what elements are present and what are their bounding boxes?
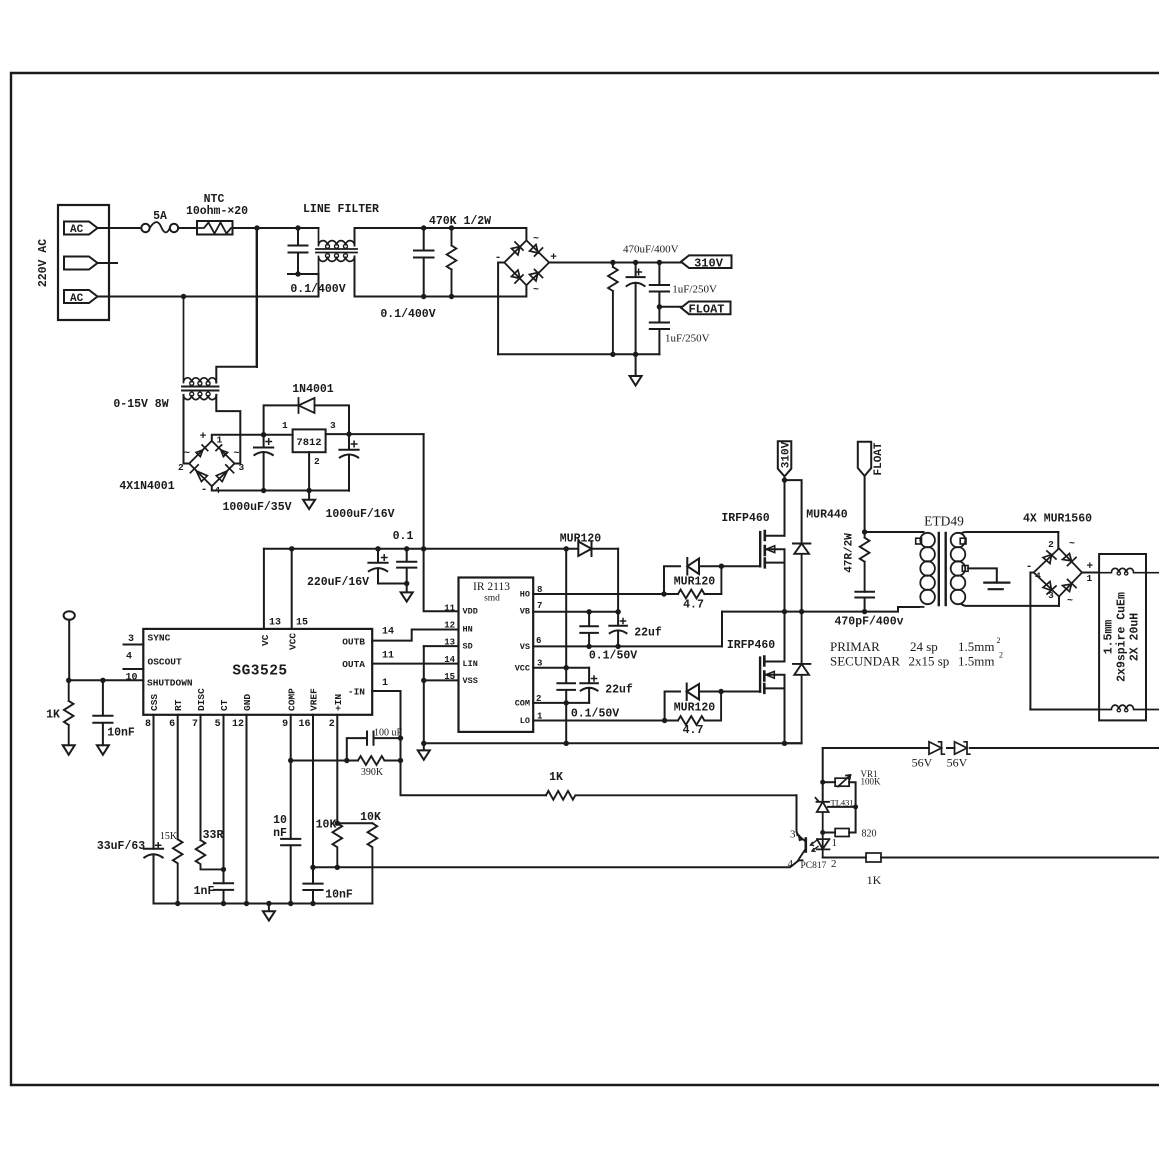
svg-text:1: 1 xyxy=(537,712,543,722)
svg-text:PC817: PC817 xyxy=(801,861,827,871)
zener diode 56V first xyxy=(929,742,944,754)
svg-text:390K: 390K xyxy=(361,767,384,778)
capacitor 1000uF/35V xyxy=(254,435,273,491)
resistor 1K shutdown xyxy=(64,680,74,745)
T2 primary polarity square xyxy=(916,538,922,544)
wire gate upper xyxy=(721,565,760,567)
pin 6 RT xyxy=(177,715,179,840)
svg-text:310V: 310V xyxy=(694,256,724,270)
svg-text:SYNC: SYNC xyxy=(148,633,171,644)
wire top to bridge xyxy=(355,228,527,240)
svg-text:SG3525: SG3525 xyxy=(232,664,287,680)
svg-text:VCC: VCC xyxy=(288,633,299,650)
MOSFET Q1 IRFP460 upper xyxy=(759,532,761,566)
svg-text:22uf: 22uf xyxy=(605,684,633,697)
bootstrap diode MUR120 xyxy=(564,546,569,551)
svg-text:VC: VC xyxy=(260,634,271,646)
svg-text:1.5mm: 1.5mm xyxy=(958,654,994,669)
IC U3 IR2113 xyxy=(459,578,534,732)
svg-text:3: 3 xyxy=(239,462,245,473)
B2 wire top corner xyxy=(1057,532,1059,548)
svg-text:56V: 56V xyxy=(947,756,968,770)
svg-text:10K: 10K xyxy=(360,811,381,824)
svg-text:MUR120: MUR120 xyxy=(674,702,716,715)
svg-text:0.1: 0.1 xyxy=(393,530,414,543)
svg-text:SHUTDOWN: SHUTDOWN xyxy=(147,678,193,689)
wire 310V to Q1 drain xyxy=(784,476,786,535)
node at NTC output xyxy=(254,225,259,230)
svg-text:13: 13 xyxy=(269,618,281,629)
7812 pin2 to rail xyxy=(308,452,310,490)
svg-text:7: 7 xyxy=(537,601,542,611)
B1 diode top-left xyxy=(512,242,524,255)
T2 center tap xyxy=(962,566,968,572)
svg-text:~: ~ xyxy=(533,234,539,245)
wire 310V to MUR440 xyxy=(785,480,802,543)
svg-text:4: 4 xyxy=(788,858,794,870)
capacitor 470uF/400V xyxy=(627,263,645,355)
feedback sense line with zeners xyxy=(823,747,1159,749)
VREF to optocoupler emitter wire xyxy=(313,861,798,867)
pin 6 VS xyxy=(533,645,722,647)
capacitor 0.1/50V vcc xyxy=(557,668,575,703)
svg-text:2: 2 xyxy=(314,456,320,467)
svg-text:VS: VS xyxy=(520,642,530,652)
pin 10 SHUTDOWN xyxy=(69,679,144,681)
svg-text:1N4001: 1N4001 xyxy=(292,383,334,396)
svg-text:-: - xyxy=(201,484,208,496)
svg-text:RT: RT xyxy=(173,699,184,711)
svg-text:OUTB: OUTB xyxy=(342,637,365,648)
pin 1 -IN xyxy=(372,691,400,738)
aux transformer secondary xyxy=(184,395,217,400)
resistor 47R/2W snubber xyxy=(860,532,870,592)
gate resistor 4.7 upper xyxy=(664,566,721,598)
capacitor 100uF feedback xyxy=(347,732,401,761)
svg-text:47R/2W: 47R/2W xyxy=(844,533,856,573)
pin 7 DISC xyxy=(200,715,202,840)
svg-text:2: 2 xyxy=(536,694,541,704)
svg-text:1K: 1K xyxy=(46,709,60,722)
ground xyxy=(401,584,413,602)
T2 secondary bottom lead xyxy=(962,605,1059,606)
bleeder resistor xyxy=(608,263,618,355)
svg-text:2: 2 xyxy=(329,719,335,730)
output bridge B2 MUR1560 xyxy=(1034,548,1082,596)
svg-text:22uf: 22uf xyxy=(634,627,662,640)
svg-text:9: 9 xyxy=(282,719,288,730)
capacitor 1uF/250V upper xyxy=(650,263,669,307)
capacitor 22uf vcc xyxy=(580,668,598,703)
B1 diode bottom-left xyxy=(512,270,524,283)
svg-text:~: ~ xyxy=(184,449,190,460)
ground xyxy=(97,745,109,755)
svg-text:1000uF/16V: 1000uF/16V xyxy=(325,508,394,521)
B1 diode top-right xyxy=(530,245,543,257)
pin 1 LO xyxy=(533,720,664,722)
bottom rail corner xyxy=(785,742,802,744)
inductor L2 top winding xyxy=(1099,568,1159,572)
aux transformer T1 primary xyxy=(184,297,217,383)
svg-text:~: ~ xyxy=(533,285,539,296)
svg-text:2: 2 xyxy=(999,651,1003,660)
MOSFET Q2 IRFP460 lower xyxy=(759,658,761,692)
resistor 10K first xyxy=(332,823,342,867)
flag FLOAT vertical xyxy=(858,442,871,476)
MUR120 anode vertical to VCC xyxy=(565,549,567,668)
aux diode top-left xyxy=(196,445,208,457)
resistor 820 xyxy=(820,830,825,835)
wire to FLOAT flag xyxy=(659,306,681,308)
T2 secondary top lead xyxy=(962,531,1058,534)
svg-text:COM: COM xyxy=(515,699,530,709)
ground xyxy=(303,491,315,510)
svg-text:470K 1/2W: 470K 1/2W xyxy=(429,215,491,228)
capacitor 0.1/400V second xyxy=(414,228,434,297)
earth ground tap xyxy=(984,583,1009,590)
-IN node down to 1K wire xyxy=(401,738,547,795)
aux bridge 4X1N4001 xyxy=(189,441,234,486)
svg-text:2: 2 xyxy=(178,462,184,473)
svg-text:15K: 15K xyxy=(160,831,178,842)
B2 plus wire xyxy=(1082,572,1099,574)
resistor 10K second xyxy=(368,823,378,903)
svg-text:1: 1 xyxy=(382,678,388,689)
svg-text:7812: 7812 xyxy=(296,437,321,449)
flag FLOAT xyxy=(681,302,731,315)
svg-text:10K: 10K xyxy=(316,819,337,832)
svg-text:nF: nF xyxy=(273,827,287,840)
capacitor 1000uF/16V xyxy=(339,434,358,491)
ground xyxy=(630,354,642,385)
svg-text:1K: 1K xyxy=(549,771,563,784)
pin 3 SYNC xyxy=(124,644,144,646)
regulator U2 7812 xyxy=(293,429,326,452)
svg-text:1.5mm: 1.5mm xyxy=(1103,620,1116,655)
svg-text:TL431: TL431 xyxy=(831,798,854,808)
node FLOAT tap xyxy=(657,304,662,309)
svg-text:VB: VB xyxy=(520,607,530,617)
capacitor 0.1/400V first xyxy=(289,228,308,274)
line filter bottom winding xyxy=(319,257,355,297)
wire bridge plus to 310V flag xyxy=(549,262,681,264)
svg-text:+: + xyxy=(1087,561,1094,573)
diode MUR440 upper xyxy=(793,544,810,612)
svg-text:smd: smd xyxy=(484,594,500,604)
capacitor 33uF/63 xyxy=(144,849,163,904)
capacitor 10nF comp xyxy=(281,839,300,904)
svg-text:0-15V 8W: 0-15V 8W xyxy=(113,398,168,411)
wire rail right end up to cap xyxy=(309,488,349,491)
svg-text:12: 12 xyxy=(232,719,244,730)
svg-text:3: 3 xyxy=(128,634,134,645)
wire AC top to fuse xyxy=(98,227,142,229)
aux transformer core xyxy=(182,387,219,391)
svg-text:IR 2113: IR 2113 xyxy=(473,581,510,593)
B2 minus wire down xyxy=(1030,573,1033,710)
svg-text:CSS: CSS xyxy=(149,694,160,711)
T2 primary winding xyxy=(865,531,924,533)
inductor L2 bottom winding xyxy=(1099,705,1159,709)
MUR120 cathode down to VB xyxy=(617,549,619,612)
svg-text:AC: AC xyxy=(70,293,84,305)
diode MUR440 lower xyxy=(793,612,810,744)
aux diode bottom-right xyxy=(216,465,233,482)
svg-text:11: 11 xyxy=(382,651,394,662)
svg-text:MUR120: MUR120 xyxy=(560,533,602,546)
resistor 1K to opto xyxy=(546,791,797,800)
connector pin middle xyxy=(64,257,98,270)
negative rail xyxy=(498,353,659,355)
wire aux bridge minus to rail xyxy=(212,486,349,490)
wire bottom to bridge xyxy=(355,285,527,296)
pin 5 CT xyxy=(223,715,225,884)
SD-VSS vertical to ground rail xyxy=(423,646,425,743)
svg-text:2: 2 xyxy=(1048,539,1054,550)
svg-text:8: 8 xyxy=(537,585,542,595)
svg-text:3: 3 xyxy=(330,420,336,431)
capacitor 0.1/50V bootstrap xyxy=(586,609,591,614)
wire NTC to filter xyxy=(233,227,319,229)
svg-text:1000uF/35V: 1000uF/35V xyxy=(222,501,291,514)
svg-text:14: 14 xyxy=(444,655,455,665)
ground rail xyxy=(154,903,373,905)
pin 9 COMP xyxy=(290,715,292,839)
svg-text:1: 1 xyxy=(832,837,838,849)
svg-text:1uF/250V: 1uF/250V xyxy=(672,284,717,296)
resistor 390K feedback xyxy=(288,758,293,763)
svg-text:4.7: 4.7 xyxy=(683,724,704,737)
svg-text:2: 2 xyxy=(831,858,837,870)
ground symbol on rail xyxy=(266,901,271,906)
pin 13 VC xyxy=(263,549,265,629)
svg-text:LIN: LIN xyxy=(463,659,478,669)
svg-text:33uF/63: 33uF/63 xyxy=(97,840,145,853)
svg-text:SD: SD xyxy=(463,642,473,652)
svg-text:MUR120: MUR120 xyxy=(674,576,716,589)
capacitor 10nF vref xyxy=(303,884,322,904)
pin 16 VREF xyxy=(312,715,314,884)
svg-text:470pF/400v: 470pF/400v xyxy=(834,616,903,629)
line filter core xyxy=(316,249,357,253)
wire fuse to NTC xyxy=(178,227,197,229)
svg-text:3: 3 xyxy=(537,659,542,669)
output minus rail xyxy=(1030,709,1099,711)
B2 diode bottom-right xyxy=(1063,580,1077,592)
svg-text:FLOAT: FLOAT xyxy=(873,442,885,475)
capacitor 1uF/250V lower xyxy=(650,307,669,355)
wire gate lower xyxy=(721,691,760,693)
COM ground rail xyxy=(424,742,801,744)
svg-text:12: 12 xyxy=(444,621,455,631)
wire 7812 out down to VCC rail xyxy=(423,434,425,549)
svg-text:~: ~ xyxy=(1067,596,1073,607)
svg-text:SECUNDAR: SECUNDAR xyxy=(830,654,900,669)
svg-text:LO: LO xyxy=(520,716,530,726)
B2 diode top-right xyxy=(1063,554,1077,566)
pin 15 VSS xyxy=(424,679,459,681)
svg-text:3: 3 xyxy=(790,829,796,841)
zener diode 56V second xyxy=(955,742,970,754)
pin 7 VB xyxy=(533,611,618,613)
svg-text:1: 1 xyxy=(282,420,288,431)
resistor 1K output xyxy=(823,857,866,859)
svg-text:ETD49: ETD49 xyxy=(924,514,964,529)
connector pin AC bottom xyxy=(64,290,98,303)
svg-text:+IN: +IN xyxy=(333,694,344,711)
svg-text:0.1/50V: 0.1/50V xyxy=(571,708,619,721)
svg-text:16: 16 xyxy=(298,719,310,730)
wire aux bridge plus to 7812 xyxy=(212,435,293,441)
B2 diode bottom-left xyxy=(1043,582,1056,595)
wire +IN node to second 10K xyxy=(337,822,372,824)
resistor 15K xyxy=(173,839,183,903)
wire TL431 cathode xyxy=(822,782,824,802)
PC817 phototransistor xyxy=(804,839,807,852)
svg-text:0.1/400V: 0.1/400V xyxy=(380,308,435,321)
pin 11 OUTA xyxy=(372,663,458,665)
svg-text:GND: GND xyxy=(242,694,253,711)
pin 2 +IN xyxy=(336,715,338,823)
svg-text:15: 15 xyxy=(444,672,455,682)
fuse F1 5A xyxy=(141,224,149,232)
capacitor 22uf bootstrap xyxy=(609,612,627,647)
ground xyxy=(418,743,430,760)
wire middle pin stub xyxy=(98,262,118,264)
bridge rectifier B1 xyxy=(504,240,549,285)
wire node down to aux transformer xyxy=(256,228,258,367)
svg-text:2x15 sp: 2x15 sp xyxy=(909,654,950,669)
svg-text:0.1/50V: 0.1/50V xyxy=(589,650,637,663)
svg-text:6: 6 xyxy=(536,636,541,646)
svg-text:24 sp: 24 sp xyxy=(910,639,938,654)
svg-text:OUTA: OUTA xyxy=(342,659,365,670)
Q2 drain to mid rail xyxy=(784,612,786,662)
PC817 light arrows xyxy=(811,841,819,852)
aux diode top-right xyxy=(216,445,228,457)
pin 3 VCC xyxy=(533,667,589,669)
svg-text:13: 13 xyxy=(444,638,455,648)
connector J1 220V AC xyxy=(58,205,109,320)
Q2 source to bottom rail xyxy=(784,688,786,743)
svg-text:7: 7 xyxy=(192,719,198,730)
capacitor 470pF/400v xyxy=(855,592,874,612)
wire AC bottom xyxy=(98,296,319,298)
Q1 source to mid rail xyxy=(784,563,786,612)
svg-text:10: 10 xyxy=(273,814,287,827)
pin 14 OUTB xyxy=(372,630,458,641)
svg-text:COMP: COMP xyxy=(287,688,298,711)
resistor 470K 1/2W xyxy=(447,228,457,297)
capacitor 10nF shutdown xyxy=(93,680,112,745)
svg-text:1: 1 xyxy=(1087,573,1093,584)
svg-text:11: 11 xyxy=(444,604,455,614)
line filter top winding xyxy=(319,228,355,246)
wire terminal to shutdown xyxy=(68,620,70,681)
svg-text:33R: 33R xyxy=(203,829,224,842)
svg-text:AC: AC xyxy=(70,224,84,236)
gate resistor 4.7 lower xyxy=(665,692,722,725)
inductor box 2X 20uH xyxy=(1099,554,1146,720)
svg-text:~: ~ xyxy=(1069,539,1075,550)
svg-text:+: + xyxy=(200,431,207,443)
capacitor 220uF/16V xyxy=(368,549,406,584)
ground xyxy=(63,745,75,755)
potentiometer VR1 100K xyxy=(823,781,835,783)
svg-text:4X1N4001: 4X1N4001 xyxy=(119,480,174,493)
T2 secondary winding xyxy=(951,533,966,548)
svg-text:10nF: 10nF xyxy=(107,727,135,740)
svg-text:VSS: VSS xyxy=(463,676,478,686)
svg-text:IRFP460: IRFP460 xyxy=(727,639,775,652)
svg-text:HO: HO xyxy=(520,590,530,600)
svg-text:15: 15 xyxy=(296,618,308,629)
svg-text:PRIMAR: PRIMAR xyxy=(830,639,880,654)
VS wire to mid rail xyxy=(721,612,723,647)
svg-text:LINE FILTER: LINE FILTER xyxy=(303,203,379,216)
pin 13 SD xyxy=(424,645,459,647)
B1 diode bottom-right xyxy=(530,270,543,282)
mid rail node xyxy=(722,607,919,612)
svg-text:310V: 310V xyxy=(781,441,793,468)
svg-text:OSCOUT: OSCOUT xyxy=(148,657,183,668)
TL431 shunt regulator xyxy=(816,798,830,833)
diode 1N4001 bypass xyxy=(264,405,349,434)
svg-text:VCC: VCC xyxy=(515,664,530,674)
wire bottom jog to filter xyxy=(98,274,319,297)
svg-text:4.7: 4.7 xyxy=(683,599,704,612)
svg-text:100K: 100K xyxy=(861,777,882,787)
resistor 33R xyxy=(196,840,224,869)
T2 core xyxy=(939,533,946,605)
svg-text:820: 820 xyxy=(862,829,877,840)
svg-text:IRFP460: IRFP460 xyxy=(721,512,769,525)
gate network upper: diode MUR120 xyxy=(661,591,666,596)
IC U1 SG3525 xyxy=(143,629,372,715)
pin 11 VDD xyxy=(424,549,459,612)
svg-text:2: 2 xyxy=(997,636,1001,645)
capacitor 0.1 xyxy=(397,549,416,584)
svg-text:VREF: VREF xyxy=(309,688,320,711)
aux diode bottom-left xyxy=(190,465,207,482)
svg-text:HN: HN xyxy=(463,625,473,635)
svg-text:2x9spire CuEm: 2x9spire CuEm xyxy=(1116,592,1129,682)
svg-text:DISC: DISC xyxy=(196,688,207,711)
capacitor 1nF xyxy=(214,883,233,903)
svg-text:MUR440: MUR440 xyxy=(806,509,848,522)
svg-text:220uF/16V: 220uF/16V xyxy=(307,576,369,589)
svg-text:VDD: VDD xyxy=(463,607,478,617)
pin 8 CSS xyxy=(153,715,155,849)
svg-text:3: 3 xyxy=(1048,590,1054,601)
terminal circle xyxy=(64,611,75,620)
pin 12 GND xyxy=(246,715,248,904)
svg-text:1.5mm: 1.5mm xyxy=(958,639,994,654)
wire down to regulator chain xyxy=(822,748,824,782)
svg-text:1uF/250V: 1uF/250V xyxy=(665,333,710,345)
wire FLOAT down to primary top xyxy=(864,476,866,532)
T2 secondary polarity square xyxy=(960,538,966,544)
svg-text:10nF: 10nF xyxy=(325,889,353,902)
connector pin AC top xyxy=(64,222,98,235)
VCC supply rail xyxy=(264,548,566,550)
svg-text:100 uF: 100 uF xyxy=(374,728,403,739)
svg-text:56V: 56V xyxy=(912,756,933,770)
svg-text:220V AC: 220V AC xyxy=(37,239,50,287)
svg-text:10: 10 xyxy=(125,673,137,684)
svg-text:-: - xyxy=(1026,561,1033,573)
pin 8 HO xyxy=(533,593,664,595)
